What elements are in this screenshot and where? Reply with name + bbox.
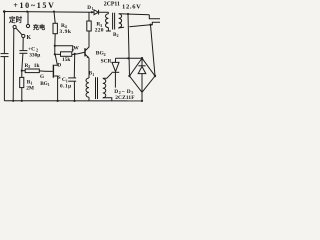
svg-text:220: 220: [95, 27, 104, 33]
wire to pot wiper: [55, 46, 73, 51]
resistor R3: [87, 21, 91, 31]
svg-text:K: K: [27, 35, 32, 41]
transformer B1 secondary winding: [103, 79, 106, 98]
wire C1 tap down: [73, 54, 75, 78]
svg-text:1: 1: [48, 83, 50, 87]
label B1: [89, 71, 95, 77]
resistor R2: [22, 70, 25, 72]
bridge inner diode: [141, 59, 143, 66]
label B2: [113, 32, 119, 38]
B2 primary bottom bar: [106, 30, 111, 32]
wire left edge vertical (upper): [3, 12, 5, 54]
label R4 3.9k: [59, 23, 71, 35]
svg-text:1: 1: [92, 73, 94, 77]
wire left edge vertical (lower): [3, 57, 5, 101]
svg-text:330μ: 330μ: [29, 52, 40, 58]
resistor R4: [54, 12, 55, 24]
wire C1 to bottom rail: [73, 82, 75, 101]
svg-text:15k: 15k: [62, 57, 70, 63]
SCR gate: [103, 73, 112, 78]
switch K pole contact A: [13, 25, 16, 28]
svg-text:2: 2: [104, 52, 106, 57]
label C1 value: [60, 77, 72, 89]
wire switch pole down to bottom rail: [12, 29, 15, 101]
capacitor C1 (plates): [68, 77, 76, 79]
BG2 collector: [85, 31, 89, 51]
wire bottom common rail: [4, 100, 142, 102]
label D: [57, 63, 61, 69]
label R1 2M: [26, 79, 34, 91]
svg-text:2: 2: [28, 64, 30, 69]
label 定时: [9, 15, 23, 24]
pot wiper arrowhead: [72, 49, 74, 52]
svg-text:2CP11: 2CP11: [104, 1, 120, 7]
svg-text:2CZ11F: 2CZ11F: [115, 95, 135, 101]
label 15k: [62, 57, 70, 63]
label +10~15V: [13, 1, 55, 10]
svg-text:2: 2: [117, 34, 119, 38]
label W: [73, 45, 79, 51]
svg-text:D: D: [87, 5, 91, 11]
svg-text:W: W: [73, 45, 79, 51]
wire pot right to BG2 base: [72, 52, 85, 54]
svg-text:2M: 2M: [26, 86, 34, 92]
label BG1: [40, 81, 50, 87]
svg-text:G: G: [40, 74, 44, 80]
BG2 emitter arrowhead: [87, 56, 90, 59]
svg-text:充电: 充电: [33, 24, 46, 32]
svg-text:12.6V: 12.6V: [122, 4, 142, 11]
FET gate lead: [45, 70, 53, 72]
svg-text:1: 1: [92, 7, 94, 11]
BG2 emitter: [85, 54, 89, 78]
resistor R1: [21, 71, 23, 78]
switch K riser to rail: [27, 12, 29, 25]
label 2CZ11F: [115, 95, 135, 101]
label SCR: [101, 59, 112, 65]
svg-text:3.9k: 3.9k: [59, 29, 71, 35]
FET drain lead: [54, 55, 57, 66]
node pot top junction: [54, 45, 56, 47]
node R1/R2 junction: [21, 70, 23, 72]
svg-text:D: D: [57, 63, 61, 69]
svg-text:BG: BG: [40, 81, 48, 87]
wire output terminal lower: [151, 22, 161, 25]
svg-text:+10~15V: +10~15V: [13, 1, 55, 10]
transformer B2 core: [112, 13, 114, 30]
transformer B2 primary winding: [107, 12, 109, 14]
label G: [40, 74, 44, 80]
wire bridge bottom to rail: [141, 92, 143, 101]
capacitor left (plates): [1, 53, 9, 55]
switch K contact B (charge): [26, 24, 29, 27]
transistor BG1 (FET) channel bar: [52, 65, 54, 78]
node lower terminal junction: [149, 24, 151, 26]
node C1 tap: [74, 53, 76, 55]
switch K blade: [16, 28, 22, 34]
label BG2: [96, 51, 106, 57]
label R3 220: [95, 22, 104, 34]
wire right vertical to bridge right corner: [151, 25, 156, 76]
wire C2 to junction: [22, 54, 23, 71]
label K: [27, 35, 32, 41]
svg-text:0.1μ: 0.1μ: [60, 83, 72, 89]
SCR thyristor: [115, 58, 117, 62]
potentiometer W body: [61, 52, 72, 57]
label D2~D5: [114, 89, 133, 95]
node at crossing with SCR/bridge wire: [127, 57, 129, 59]
transformer B1 primary winding: [86, 78, 89, 97]
transformer B1 core: [95, 77, 97, 99]
wire contact C down to C2: [22, 38, 24, 51]
transistor BG2 base bar: [84, 48, 86, 56]
wire B2 secondary top to right: [119, 13, 150, 16]
label C2 value: [28, 46, 40, 58]
label 2CP11: [104, 1, 120, 7]
wire B1 secondary bottom to rail: [103, 98, 112, 101]
label D1: [87, 5, 93, 11]
FET source lead: [54, 76, 57, 101]
label 12.6V: [122, 4, 142, 11]
wire long vertical from top node to bridge left corner: [128, 14, 130, 76]
svg-text:定时: 定时: [9, 15, 23, 24]
diode D1: [92, 11, 94, 13]
label 充电: [33, 24, 46, 32]
svg-text:SCR: SCR: [101, 59, 112, 65]
transformer B2 secondary winding: [119, 14, 122, 28]
capacitor C2 (plates): [19, 50, 27, 52]
svg-text:1: 1: [31, 80, 33, 85]
node supply left corner: [3, 10, 6, 13]
node at x128 on top wire: [127, 13, 129, 15]
wire top supply rail: [3, 11, 93, 14]
wire output terminal top: [149, 15, 160, 19]
wire B2 secondary bottom to right (with hop gap): [119, 26, 124, 29]
label R2 1k: [25, 63, 40, 69]
svg-text:1k: 1k: [34, 63, 40, 69]
bridge rectifier D2~D5 diamond: [130, 58, 156, 92]
svg-text:S: S: [58, 75, 61, 81]
wire junction to pot left: [54, 46, 56, 55]
wire SCR anode to bridge top corner: [116, 57, 142, 59]
label S: [58, 75, 61, 81]
switch K contact C: [22, 34, 25, 37]
